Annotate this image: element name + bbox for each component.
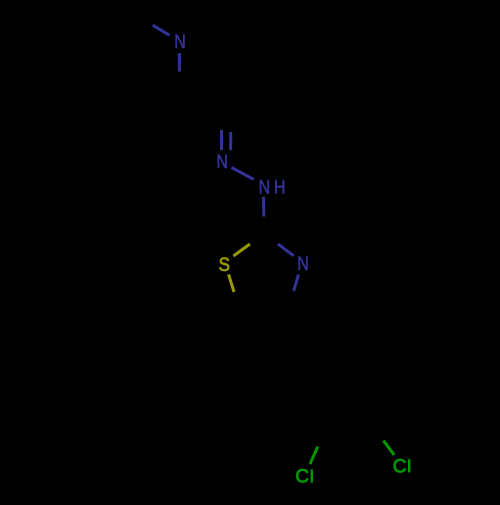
svg-text:C: C (393, 456, 407, 477)
wire: bond N3-C4 thiazole (N half) (294, 275, 299, 292)
wire: bond NH to thiazole C2 (N half) (262, 197, 265, 217)
wire: C=N double bond line 2 (N half) (229, 132, 232, 150)
wire: bond C2-N3 thiazole (N half) (278, 244, 294, 256)
node N3 thiazole label (297, 252, 309, 274)
svg-text:NH: NH (259, 176, 289, 198)
node NH label (259, 176, 289, 198)
node Cl label left (295, 466, 313, 487)
wire: C=N double bond line 1 (N half) (220, 130, 223, 150)
svg-text:N: N (216, 151, 228, 173)
wire: bond N-NH (232, 168, 254, 180)
wire: bond S1-C5 thiazole (S half) (229, 275, 234, 293)
node Cl label right (393, 456, 411, 477)
wire: bond N1 to pyridine C2 (N half) (178, 53, 181, 71)
svg-text:C: C (295, 466, 309, 487)
svg-text:N: N (297, 252, 309, 274)
wire: bond CH3 to pyridine N1 (N half) (153, 25, 170, 35)
wire: bond S1-C2 thiazole (S half) (233, 244, 250, 256)
node N1 pyridine label (174, 31, 186, 53)
svg-text:S: S (219, 253, 230, 275)
wire: bond aryl C3 to Cl (Cl half) (310, 447, 318, 464)
node hydrazone N label (216, 151, 228, 173)
wire: bond aryl C4 to Cl (Cl half) (383, 441, 394, 455)
node S1 thiazole label (219, 253, 230, 275)
svg-text:N: N (174, 31, 186, 53)
